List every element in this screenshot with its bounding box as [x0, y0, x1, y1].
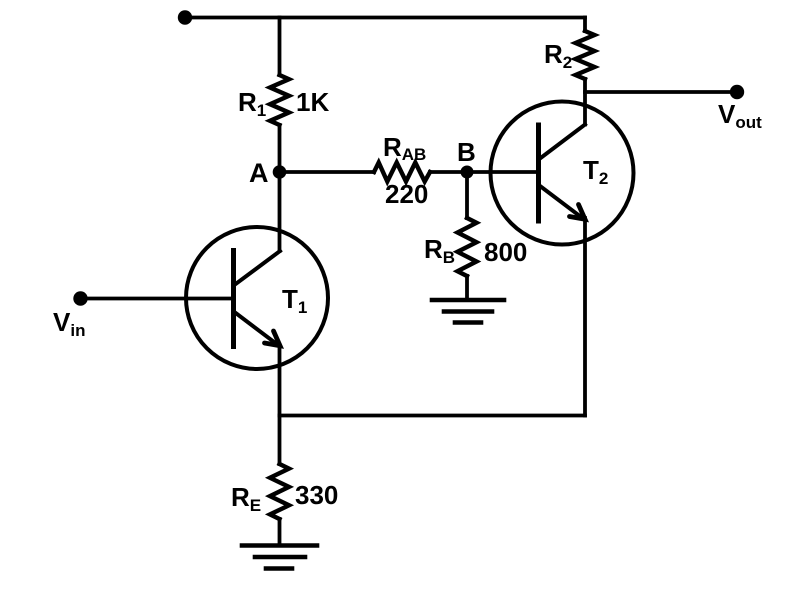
ground (RE): [242, 546, 317, 569]
wire: top supply rail: [185, 16, 585, 20]
wire: Vin to T1 base: [81, 297, 234, 301]
wire: RE bottom lead: [278, 519, 282, 545]
svg-text:A: A: [249, 158, 269, 188]
wire: R2 top lead: [583, 18, 587, 32]
svg-text:R1: R1: [238, 87, 266, 120]
svg-text:Vout: Vout: [718, 99, 762, 132]
transistor T1: [186, 227, 328, 369]
node B dot: [461, 166, 474, 179]
resistor RE: [270, 464, 289, 519]
svg-text:RAB: RAB: [383, 132, 426, 164]
svg-text:330: 330: [295, 480, 338, 510]
svg-text:220: 220: [385, 179, 428, 209]
resistor RB: [458, 218, 477, 276]
resistor R1: [270, 75, 289, 125]
wire: RAB to node B: [430, 170, 467, 174]
wire: T2 emitter down: [583, 218, 587, 416]
wire: node B down to RB: [465, 172, 469, 218]
wire: R1 bottom lead to node A: [278, 125, 282, 172]
wire: R2 bottom lead to T2 collector: [583, 79, 587, 125]
wire: bottom link T1 emitter to T2 emitter: [280, 414, 586, 418]
svg-text:RB: RB: [424, 234, 455, 267]
wire: node A down to T1 collector: [278, 172, 282, 251]
wire: output branch to Vout: [585, 90, 737, 94]
wire: T1 emitter down to RE: [278, 345, 282, 464]
wire: node A to RAB: [280, 170, 375, 174]
ground (RB): [432, 300, 504, 323]
resistor RAB: [374, 163, 430, 182]
svg-text:R2: R2: [544, 39, 572, 72]
svg-text:800: 800: [484, 237, 527, 267]
wire: R1 top lead: [278, 18, 282, 76]
supply terminal dot: [178, 10, 192, 24]
wire: node B to T2 base: [467, 170, 538, 174]
node A dot: [273, 165, 287, 179]
transistor T2: [491, 102, 634, 245]
resistor R2: [576, 31, 595, 79]
svg-text:1K: 1K: [296, 87, 329, 117]
svg-text:B: B: [457, 137, 476, 167]
svg-text:T2: T2: [583, 155, 608, 188]
wire: RB bottom lead: [465, 276, 469, 300]
terminal Vin dot: [73, 291, 87, 305]
svg-text:Vin: Vin: [53, 307, 85, 340]
terminal Vout dot: [730, 85, 744, 99]
svg-text:RE: RE: [231, 482, 261, 515]
svg-text:T1: T1: [282, 284, 307, 317]
